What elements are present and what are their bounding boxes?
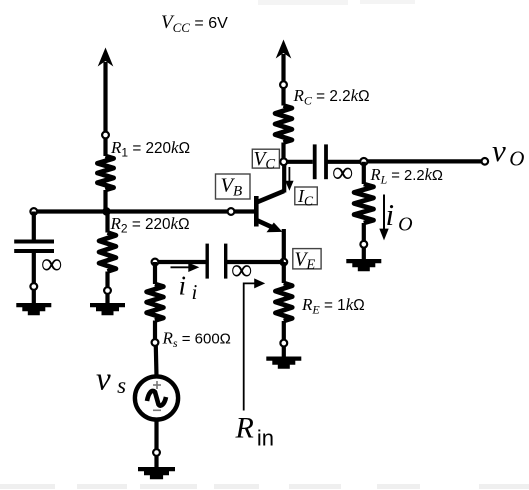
wire node to ground R2 [105,294,109,304]
wire VC node to output cap [287,160,313,164]
ground under R2 [90,303,125,315]
wire RL node to vo terminal [367,159,481,163]
wire RL node to zigzag [362,162,366,184]
wire C3 to VE node [226,260,284,264]
wire node to ground source [154,456,158,468]
source vs sine symbol [147,391,166,406]
wire junction to R2 [105,212,109,233]
wire RC bottom to VC node [281,143,285,162]
wire VE node down to RE [282,262,286,283]
wire R1 node to zigzag [103,138,107,156]
wire input rail (node to C3 to VE) [155,260,206,264]
ground under C1 [16,303,51,315]
source vs minus sign [153,409,161,411]
source vs plus sign [153,381,161,389]
transistor Q1 base bar [254,196,259,227]
node VC [280,158,287,165]
label box IC [295,186,318,209]
node vo terminal [482,158,489,165]
resistor RL [354,184,373,223]
wire node to ground C1 [32,290,36,304]
wire collector up to VC node [282,162,286,193]
wire node to ground RL [362,248,366,260]
label box VC [252,149,279,173]
label box VB [216,174,251,200]
source vs circle [135,376,178,419]
resistor R1 [97,156,113,190]
faint scan artifacts top [258,0,415,5]
wire base rail left drop to bypass cap [32,212,36,240]
transistor Q1 emitter stroke with arrow [256,220,282,232]
node under C1 [30,283,37,290]
node under R2 [104,287,111,294]
transistor Q1 collector stroke [256,191,284,203]
wire node to ground RE [282,347,286,359]
capacitor C2 (output coupling, infinite) plates [315,144,326,179]
power VCC arrow (right, above RC) [276,40,292,85]
capacitor C1 (bypass, infinite) plates [14,242,54,252]
node on R1 top [102,132,109,139]
ground under RE [266,357,301,369]
resistor Rs [147,284,164,321]
svg-text:VCC = 6V: VCC = 6V [161,12,228,35]
arrow IC [285,167,293,191]
resistor RC [275,106,292,143]
label VCC = 6V [161,12,228,35]
wire node to source vs [154,346,159,376]
capacitor C3 (input coupling, infinite) plates [207,244,226,279]
faint scan artifacts bottom [0,484,529,489]
node on base rail near transistor [228,208,235,215]
svg-text:∞: ∞ [41,248,62,281]
power VCC arrow (left, above R1) [98,48,114,136]
wire C2 to RL node [326,160,364,164]
svg-text:Rs = 600Ω: Rs = 600Ω [162,329,231,351]
node RL top [360,158,367,165]
wire C1 to ground node [32,251,36,283]
ground under RL [346,259,381,271]
svg-text:∞: ∞ [231,254,252,287]
node under RL [360,241,367,248]
wire emitter down to VE node [282,229,286,262]
node under RE [280,340,287,347]
wire R1 bottom to base rail [103,190,107,212]
wire RE to ground node [282,321,286,340]
arrow ii [171,263,200,272]
wire RL to ground node [362,223,366,241]
wire base rail (horizontal) [34,209,256,213]
arrow io [379,195,388,241]
resistor RE [275,283,292,321]
ground under source [138,467,175,479]
node under Rs [152,339,159,346]
node at left end of base rail [30,208,37,215]
node input left [152,259,159,266]
wire R2 to ground node [105,272,109,288]
resistor R2 [99,233,116,272]
node under source [153,449,160,456]
svg-text:RE = 1kΩ: RE = 1kΩ [301,295,365,317]
node VE [280,259,287,266]
wire RC node to zigzag [281,88,285,105]
wire Rs to node [153,321,157,340]
wire source to ground node [154,420,158,449]
pointer Rin (L-shaped arrow) [244,278,266,410]
node on RC top [280,81,287,88]
wire input node down to Rs [153,262,157,284]
svg-text:RL = 2.2kΩ: RL = 2.2kΩ [370,165,443,187]
label box VE [293,249,321,273]
junction divider node [102,207,110,215]
